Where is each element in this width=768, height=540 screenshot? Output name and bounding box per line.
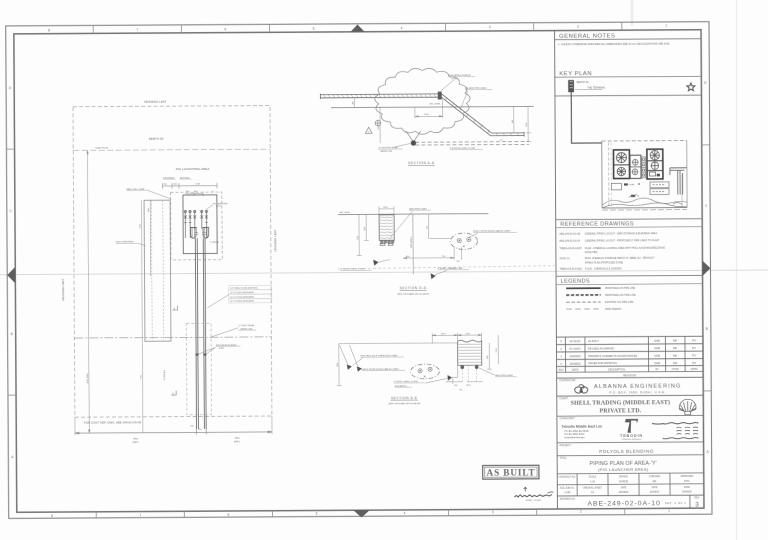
map tank block 2: [647, 149, 663, 179]
E-E gulf chemicals arrows: [339, 345, 361, 372]
map tank block 1: [613, 150, 629, 179]
svg-text:DRAWING LIMIT: DRAWING LIMIT: [144, 100, 166, 104]
albanna logo: [575, 385, 588, 394]
svg-text:SECTION D-D: SECTION D-D: [400, 286, 427, 290]
small dims near pipes: [190, 425, 201, 431]
svg-text:SIGND. - 11/11/02: SIGND. - 11/11/02: [526, 500, 541, 502]
SECTION E-E top dims: [432, 333, 481, 343]
reference drawings heading: [556, 219, 703, 228]
svg-text:4) 4"-PY-4904-43938 (NEW): 4) 4"-PY-4904-43938 (NEW): [230, 301, 254, 303]
sewa water line label: [211, 324, 256, 337]
svg-text:PIPE TRENCH: PIPE TRENCH: [605, 308, 621, 311]
svg-text:1) 8" SHELL'S LINE (EXISTING): 1) 8" SHELL'S LINE (EXISTING): [230, 288, 258, 290]
svg-text:500: 500: [454, 385, 457, 387]
svg-text:TITLE :: TITLE :: [560, 457, 568, 460]
svg-text:MK: MK: [673, 346, 677, 350]
pipe flange cross marks: [194, 232, 206, 234]
general notes heading: [555, 33, 702, 40]
A-A dim 450: [353, 98, 355, 108]
D-D new pipe lines label: [390, 208, 431, 237]
svg-text:2" HS2008: 2" HS2008: [210, 242, 219, 244]
svg-text:(375): (375): [466, 385, 471, 387]
svg-text:SHROB: SHROB: [619, 480, 628, 483]
arabic text block: [652, 423, 699, 439]
svg-text:SECTION A-A: SECTION A-A: [408, 161, 435, 165]
svg-text:ABE-249-02-GA-09: ABE-249-02-GA-09: [559, 240, 580, 243]
grid ticks sides: [6, 145, 711, 395]
map middle block: [630, 155, 641, 178]
A-A vertical dim mid: [378, 107, 380, 143]
svg-text:225: 225: [459, 389, 462, 391]
A-A water line crossing: [406, 131, 421, 146]
E-E left dim: [336, 344, 341, 386]
quay edge dashed line: [73, 149, 270, 150]
svg-text:4" PIPE A/G: 4" PIPE A/G: [163, 369, 166, 380]
svg-text:P.PV: P.PV: [684, 480, 690, 483]
svg-text:4500 (APPX.): 4500 (APPX.): [410, 236, 413, 248]
signature squiggle: [514, 487, 553, 497]
svg-text:2) 4"-PY-4492-43938 (NEW): 2) 4"-PY-4492-43938 (NEW): [230, 292, 254, 294]
svg-text:28/08/02: 28/08/02: [569, 361, 581, 365]
svg-text:CHECKED: CHECKED: [649, 476, 661, 478]
svg-text:PV: PV: [692, 339, 696, 343]
svg-text:SHB: SHB: [654, 354, 660, 358]
ref drawing row 2: [559, 239, 660, 243]
svg-text:(TYP): (TYP): [216, 206, 222, 208]
svg-text:3984: 3984: [133, 439, 139, 441]
svg-text:5576: 5576: [140, 224, 142, 228]
svg-text:SHB: SHB: [654, 339, 660, 343]
A-A dim 1500 horizontal: [415, 99, 443, 118]
svg-text:26/08/02: 26/08/02: [619, 491, 629, 494]
E-E new pipe lines label: [479, 368, 517, 377]
centering mark left: [7, 267, 15, 283]
SECTION D-D ground line: [338, 213, 488, 216]
D-D cables oval: [450, 233, 477, 250]
svg-text:3: 3: [695, 502, 699, 509]
svg-text:(REF. DWG.ABE-249-02-GA-09): (REF. DWG.ABE-249-02-GA-09): [397, 292, 429, 295]
svg-text:DATE: DATE: [652, 486, 658, 489]
D-D kharafi line label: [435, 267, 469, 275]
E-E shell arrow: [447, 375, 452, 381]
grid ticks bottom: [96, 509, 625, 518]
svg-text:(PIG LAUNCHER AREA): (PIG LAUNCHER AREA): [598, 467, 649, 472]
revision row 3: [560, 339, 696, 344]
exist wire rack label: [116, 241, 146, 246]
A-A revision cloud: [375, 68, 471, 134]
map small dark unit: [624, 183, 635, 186]
grid ticks top: [93, 22, 622, 33]
svg-text:KEY PLAN: KEY PLAN: [559, 71, 592, 77]
svg-text:AS BUILT: AS BUILT: [588, 340, 599, 343]
consultant section line: [557, 414, 703, 417]
svg-text:250: 250: [456, 261, 459, 263]
D-D pipes under trench: [380, 240, 394, 245]
svg-text:11811 (REF): 11811 (REF): [87, 373, 89, 384]
svg-text:P.O. Box 6865, Dubai: P.O. Box 6865, Dubai: [565, 434, 585, 436]
launcher pipe assembly 1: [184, 210, 187, 238]
svg-text:JOINT: JOINT: [218, 348, 225, 350]
map small units column: [642, 157, 646, 178]
svg-text:EXISTING U/G PIPE LINE: EXISTING U/G PIPE LINE: [605, 301, 634, 304]
fold line: [0, 270, 768, 275]
svg-text:(REF.): (REF.): [234, 441, 240, 443]
map tank 1a: [616, 153, 626, 163]
launcher pipe assembly 4: [200, 210, 203, 229]
rev cell: [690, 495, 700, 508]
svg-text:6: 6: [224, 27, 226, 31]
section marker A top: [172, 306, 177, 311]
svg-text:200: 200: [190, 425, 193, 427]
svg-text:GENERAL NOTES: GENERAL NOTES: [559, 33, 615, 39]
ref drawing row 3: [559, 247, 665, 255]
map tank 2b: [651, 162, 658, 169]
svg-text:PIG LAUNCHER: PIG LAUNCHER: [213, 202, 229, 205]
svg-text:2: 2: [577, 24, 579, 28]
insulating flange joint label: [198, 344, 240, 354]
legend proposed A/S pipe line: [566, 287, 635, 290]
exist wire rack rect: [144, 200, 171, 341]
svg-text:REVISION: REVISION: [623, 373, 636, 377]
dim line 11811: [87, 150, 90, 433]
extended existing labels: [163, 177, 192, 179]
svg-text:CONSULTANT: CONSULTANT: [559, 417, 575, 420]
section A-A title: [408, 161, 435, 165]
svg-text:DRAWN: DRAWN: [619, 475, 628, 478]
svg-text:1500: 1500: [364, 227, 366, 231]
top dimension labels: [163, 184, 200, 186]
ref drawing row 5: [559, 268, 621, 271]
svg-text:MK: MK: [673, 339, 677, 343]
svg-text:SHB: SHB: [654, 346, 660, 350]
svg-text:750: 750: [442, 256, 445, 258]
title section line: [557, 454, 703, 457]
svg-text:7175: 7175: [141, 375, 143, 379]
svg-text:800: 800: [487, 356, 489, 359]
svg-text:CLIENT :: CLIENT :: [559, 397, 569, 400]
dash-dot line mid: [74, 337, 271, 338]
svg-text:QUAY EDGE: QUAY EDGE: [95, 147, 108, 150]
key plan strip bottom line: [555, 94, 701, 97]
svg-text:SCALE: SCALE: [589, 475, 597, 478]
svg-text:1500: 1500: [337, 363, 339, 367]
svg-text:SHT. 1 OF 1: SHT. 1 OF 1: [665, 501, 686, 505]
launcher pipe assembly 2: [189, 210, 192, 238]
centering mark top: [351, 24, 365, 31]
map dot: [638, 183, 640, 185]
svg-text:BERTH 50: BERTH 50: [577, 81, 590, 84]
AS BUILT stamp box: [483, 465, 539, 479]
svg-text:1500: 1500: [378, 126, 380, 130]
key plan heading: [555, 71, 702, 78]
svg-text:P SHED: P SHED: [629, 185, 636, 187]
revision table grid: [556, 336, 703, 378]
svg-text:8: 8: [51, 514, 53, 518]
new conc curb label: [126, 188, 171, 199]
svg-text:PROJECT :: PROJECT :: [560, 444, 573, 447]
map warehouse: [611, 183, 621, 189]
D-D center vertical: [410, 215, 413, 275]
svg-text:1850: 1850: [405, 256, 409, 258]
svg-text:1800: 1800: [148, 208, 150, 212]
small dashed rect around pipes: [186, 323, 211, 415]
svg-text:GENERAL PIPING LAYOUT - PROPOS: GENERAL PIPING LAYOUT - PROPOSED 6" PIPE…: [585, 239, 660, 242]
contract row2 headers: [560, 486, 690, 490]
svg-text:1250: 1250: [496, 348, 498, 352]
dim line 1800: [149, 200, 151, 276]
drawing limit dashed boundary: [73, 106, 272, 418]
revision header row: [559, 368, 698, 372]
svg-text:3: 3: [492, 510, 494, 514]
dim line 5576: [141, 200, 142, 432]
svg-text:DRAWING LIMIT: DRAWING LIMIT: [273, 229, 277, 251]
map quay structure: [670, 168, 687, 195]
A-A sloped pipe hatch: [445, 97, 518, 136]
svg-text:GENERAL PIPING LAYOUT - NEW ST: GENERAL PIPING LAYOUT - NEW STORAGE & BL…: [585, 232, 658, 235]
A-A revision triangle 3: [365, 127, 372, 133]
svg-text:PV: PV: [692, 361, 696, 365]
E-E pipes in trench: [460, 365, 478, 369]
svg-text:PIPING PLAN (PROPOSED ZONE): PIPING PLAN (PROPOSED ZONE): [585, 261, 623, 264]
svg-text:GR. LEVEL: GR. LEVEL: [429, 104, 441, 106]
svg-text:REFERENCE DRAWINGS: REFERENCE DRAWINGS: [560, 221, 634, 227]
E-E right dims: [487, 335, 498, 369]
svg-text:PRIVATE LTD.: PRIVATE LTD.: [599, 408, 641, 414]
A-A insulating flange: [438, 92, 442, 100]
A-A existing shells line label: [450, 148, 483, 150]
E-E bottom dims: [446, 378, 483, 384]
map launcher location mark: [629, 194, 639, 197]
A-A sloped pipe: [442, 94, 524, 137]
svg-text:1500: 1500: [526, 123, 528, 127]
svg-text:26/08/02: 26/08/02: [650, 491, 660, 494]
svg-text:4: 4: [404, 511, 406, 515]
A-A pipe hatch: [323, 94, 436, 98]
svg-text:JOINT: JOINT: [451, 78, 458, 80]
launcher barrel 2: [203, 227, 209, 238]
shell pecten logo: [679, 399, 696, 415]
D-D shells line arrow: [373, 260, 390, 266]
launcher area dashed rect: [171, 192, 223, 260]
svg-text:AS BUILT: AS BUILT: [487, 468, 536, 478]
map coast road curves: [602, 198, 687, 208]
svg-text:7: 7: [139, 513, 141, 517]
svg-text:1: 1: [668, 509, 670, 513]
map right road: [681, 175, 683, 207]
svg-text:DATE: DATE: [572, 369, 579, 372]
callout leader: [207, 295, 229, 308]
bottom dimension line: [75, 416, 272, 435]
key plan map frame: [602, 140, 687, 210]
svg-text:SHB: SHB: [654, 361, 660, 365]
svg-text:ORIGINAL SHEET: ORIGINAL SHEET: [583, 486, 603, 489]
svg-text:6: 6: [227, 513, 229, 517]
D-D kharafi arrow: [431, 273, 436, 279]
top dimension line: [162, 183, 217, 189]
contract row2 values: [564, 491, 692, 495]
svg-text:Consultants & Engineers: Consultants & Engineers: [622, 438, 642, 441]
insulating flange joints on pipes: [196, 353, 207, 355]
svg-text:DRAWING NO.: DRAWING NO.: [560, 498, 576, 501]
svg-text:4: 4: [401, 26, 403, 30]
A-A right dims: [514, 106, 531, 141]
E-E cables oval: [410, 364, 439, 379]
map tank 1b: [617, 167, 625, 175]
svg-text:7: 7: [136, 28, 138, 32]
A-A insulating flange label: [441, 74, 475, 91]
svg-text:FACILITIES: FACILITIES: [585, 251, 598, 254]
svg-text:BERTH 50: BERTH 50: [149, 137, 164, 141]
grid zone labels sides: [9, 81, 710, 459]
svg-text:3) 4"-PY-4136-43938 (NEW): 3) 4"-PY-4136-43938 (NEW): [230, 296, 254, 298]
D-D left dims: [357, 215, 369, 255]
E-E trench box: [458, 340, 482, 365]
svg-text:CHKD: CHKD: [672, 368, 679, 371]
svg-text:MK: MK: [673, 361, 677, 365]
800 800 dimension: [185, 191, 214, 196]
the terminal label: [575, 86, 606, 89]
contract row1 values: [590, 480, 690, 484]
E-E reference line: [339, 342, 458, 345]
D-D trench box: [379, 215, 394, 240]
A-A horizontal pipe: [320, 93, 439, 99]
svg-text:SHELL TRADING (MIDDLE EAST): SHELL TRADING (MIDDLE EAST): [571, 399, 670, 407]
svg-text:REVISED AS MARKED: REVISED AS MARKED: [588, 347, 614, 350]
svg-text:REV: REV: [559, 369, 564, 372]
project section line: [557, 441, 703, 444]
svg-text:TEBODIN: TEBODIN: [620, 434, 643, 438]
svg-text:ACE JOB NO.: ACE JOB NO.: [560, 486, 575, 489]
svg-text:THEDA-06-214-0001: THEDA-06-214-0001: [559, 268, 582, 271]
svg-text:APPD: APPD: [691, 368, 698, 371]
svg-text:(REF.): (REF.): [132, 442, 138, 444]
bottom dim labels: [132, 438, 240, 444]
svg-text:DATE: DATE: [621, 486, 627, 489]
svg-text:PV: PV: [692, 354, 696, 358]
svg-text:APPROVED: APPROVED: [680, 475, 693, 478]
svg-text:3: 3: [489, 25, 491, 29]
contract table grid: [557, 473, 704, 496]
svg-text:210: 210: [500, 140, 503, 142]
E-E shells line label: [394, 378, 448, 387]
legend proposed U/G pipe line: [566, 294, 636, 297]
main pipe 2 down: [203, 238, 206, 429]
svg-text:MK: MK: [673, 354, 677, 358]
revision row 1: [560, 354, 696, 359]
svg-text:ALBANNA ENGINEERING: ALBANNA ENGINEERING: [594, 384, 681, 391]
centering mark right: [702, 261, 710, 276]
revision row 0: [560, 361, 696, 366]
legends heading: [556, 275, 703, 284]
svg-text:POLYOLS BLENDING: POLYOLS BLENDING: [599, 449, 654, 454]
grid zone labels bottom: [51, 509, 670, 518]
A-A sewa water line label: [378, 143, 410, 152]
svg-text:750: 750: [427, 226, 429, 229]
tebodin address lines: [564, 429, 589, 439]
svg-text:WATER LINE: WATER LINE: [380, 150, 393, 153]
svg-text:450: 450: [353, 101, 355, 104]
centering mark bottom: [353, 510, 369, 517]
svg-text:P.O. Box 2652, Abu Dhabi: P.O. Box 2652, Abu Dhabi: [564, 429, 589, 432]
contract row1 headers: [558, 475, 693, 479]
section E-E title: [388, 396, 420, 405]
D-D dim 750: [426, 215, 428, 239]
D-D below oval dims: [403, 246, 461, 260]
svg-text:1750: 1750: [357, 236, 359, 240]
svg-text:2: 2: [580, 510, 582, 514]
map loading bays: [650, 182, 669, 195]
svg-text:A: A: [173, 306, 175, 310]
ref drawing row 1: [559, 232, 657, 236]
svg-text:20/GC-11: 20/GC-11: [559, 257, 570, 260]
svg-text:11/11/02: 11/11/02: [570, 339, 581, 343]
legend existing U/G pipe line: [566, 301, 634, 304]
svg-text:REV: REV: [695, 497, 700, 499]
svg-text:J-249: J-249: [564, 491, 571, 494]
svg-text:A: A: [172, 391, 174, 395]
svg-text:BY: BY: [655, 368, 659, 371]
svg-text:THEDA-06-214-0007: THEDA-06-214-0007: [559, 247, 582, 250]
launcher area solid rect: [183, 195, 217, 254]
E-E petroleum cables label: [362, 368, 406, 371]
svg-text:8: 8: [48, 28, 50, 32]
paper edge streak right: [736, 0, 738, 540]
svg-text:20/09/02: 20/09/02: [569, 354, 581, 358]
svg-text:DRAWING LIMIT: DRAWING LIMIT: [61, 279, 65, 301]
svg-text:DATE: DATE: [684, 486, 690, 489]
launcher pipe assembly 3: [193, 210, 196, 229]
svg-text:SECTION E-E: SECTION E-E: [391, 396, 418, 400]
svg-text:PROPOSED U/G PIPE LINE: PROPOSED U/G PIPE LINE: [605, 294, 636, 297]
section D-D title: [397, 286, 429, 295]
main pipe 1 down: [195, 238, 198, 429]
map tank 2a: [650, 151, 659, 160]
SECTION A-A ground line: [331, 106, 534, 107]
svg-text:MK: MK: [653, 480, 657, 483]
legend pipe trench: [566, 308, 621, 311]
svg-text:26/08/02: 26/08/02: [682, 491, 692, 494]
svg-text:ABE-249-02-GA-08: ABE-249-02-GA-08: [559, 233, 580, 236]
map admin units: [649, 172, 660, 176]
svg-text:CONTRACTOR :: CONTRACTOR :: [559, 379, 577, 382]
svg-text:BULK CHEMICAL STORAGE DEPOT AT: BULK CHEMICAL STORAGE DEPOT AT JEBEL ALI…: [585, 257, 655, 260]
svg-text:300: 300: [198, 429, 201, 431]
svg-text:DESCRIPTION: DESCRIPTION: [608, 369, 625, 372]
A-A underground dashed pipe: [415, 142, 529, 145]
launcher barrel 1: [191, 227, 197, 238]
grid zone labels top: [48, 24, 667, 33]
svg-text:FOR CONT. REF. DWG. ABE-24: FOR CONT. REF. DWG. ABE-249-02-GA-09: [84, 421, 141, 425]
map bottom right curve: [673, 202, 682, 204]
svg-text:GR. LEVEL: GR. LEVEL: [339, 212, 351, 214]
svg-text:ISSUED FOR APPROVAL: ISSUED FOR APPROVAL: [588, 362, 618, 365]
client section line: [557, 394, 703, 397]
svg-text:07/10/02: 07/10/02: [569, 347, 581, 351]
svg-text:5: 5: [313, 27, 315, 31]
wire rack inner dashed lines: [151, 200, 163, 341]
svg-text:PIG LAUNCHING AREA: PIG LAUNCHING AREA: [176, 167, 210, 171]
svg-text:TEBODIN'S COMMENTS INCORPORATE: TEBODIN'S COMMENTS INCORPORATED: [588, 355, 637, 358]
svg-text:(REF. DWG.ABE-249-02-GA-09): (REF. DWG.ABE-249-02-GA-09): [388, 402, 420, 405]
section marker A bottom: [171, 391, 176, 396]
svg-text:1: 1: [665, 24, 667, 28]
D-D existing line faint: [338, 266, 558, 269]
key plan berth marker: [568, 80, 574, 92]
svg-text:P.O. BOX: 2606, DUBAI, U.A.E.: P.O. BOX: 2606, DUBAI, U.A.E.: [609, 390, 666, 394]
svg-text:3984: 3984: [235, 438, 241, 440]
svg-text:PROPOSED A/S PIPE LINE: PROPOSED A/S PIPE LINE: [605, 287, 635, 290]
svg-text:5: 5: [316, 512, 318, 516]
